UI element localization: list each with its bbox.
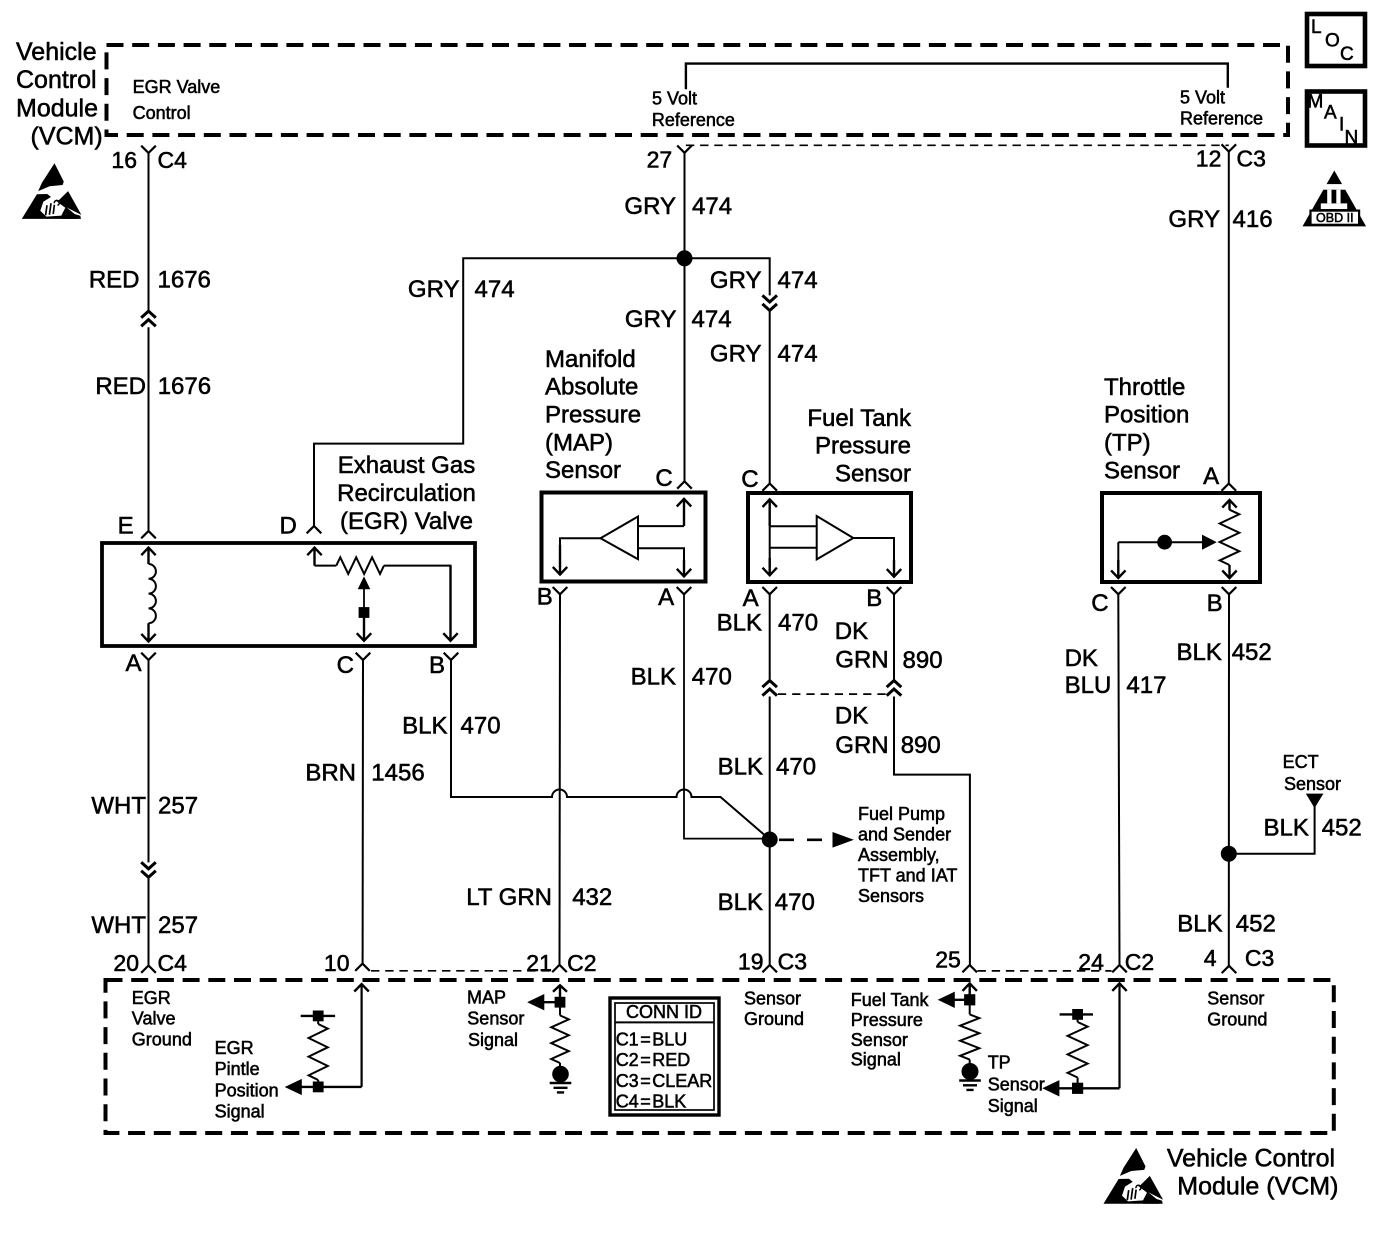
svg-text:890: 890 (903, 647, 943, 674)
svg-text:16: 16 (111, 147, 137, 173)
pin 19 C3 (738, 949, 807, 975)
EGR valve title (337, 452, 476, 535)
note EGR Valve Ground (132, 988, 192, 1049)
svg-text:Assembly,: Assembly, (858, 845, 940, 865)
wire ECT sensor stub (1229, 806, 1315, 854)
pin 4 C3 (1204, 945, 1275, 973)
svg-text:4: 4 (1204, 945, 1217, 971)
svg-text:474: 474 (475, 276, 515, 303)
svg-text:C1 = BLU: C1 = BLU (616, 1030, 688, 1050)
wire BRN 1456 (362, 660, 364, 964)
svg-text:DK: DK (835, 618, 868, 645)
svg-text:452: 452 (1232, 639, 1272, 666)
crossover dashed link (778, 693, 886, 695)
label GRY 474 on D riser (408, 276, 515, 303)
svg-text:Manifold: Manifold (545, 346, 636, 373)
wire WHT 257 upper (148, 660, 150, 862)
svg-text:TFT and IAT: TFT and IAT (858, 866, 957, 886)
svg-text:Module (VCM): Module (VCM) (1177, 1173, 1338, 1201)
note Fuel Tank Pressure Sensor Signal (851, 990, 930, 1070)
svg-text:OBD II: OBD II (1316, 211, 1354, 225)
label WHT 257 second (91, 912, 198, 939)
EGR pintle position signal resistor (287, 984, 369, 1094)
svg-text:257: 257 (158, 912, 198, 939)
wire thin dashed 25 to 24 (978, 970, 1112, 972)
svg-text:B: B (866, 585, 882, 612)
CONN ID table (610, 998, 719, 1115)
pin C MAP (655, 465, 691, 492)
svg-text:Vehicle: Vehicle (16, 38, 97, 66)
junction node GRY (678, 251, 692, 265)
svg-text:Sensor: Sensor (988, 1075, 1045, 1095)
pin C fuel sensor (741, 466, 777, 493)
svg-text:Pintle: Pintle (215, 1059, 260, 1079)
note Sensor Ground pin 4 (1207, 989, 1267, 1030)
wire GRY 474 from pin D to junction (314, 258, 678, 526)
fuel tank pressure sensor title (807, 405, 912, 488)
svg-text:GRN: GRN (835, 647, 888, 674)
TP wiper arm (1111, 536, 1214, 578)
svg-text:452: 452 (1236, 911, 1276, 938)
svg-text:Sensor: Sensor (467, 1009, 524, 1029)
pin 21 C2 (526, 950, 596, 976)
label GRY 474 mid (625, 306, 732, 333)
svg-text:Sensors: Sensors (858, 886, 924, 906)
svg-text:GRY: GRY (625, 306, 677, 333)
TP potentiometer (1220, 500, 1240, 578)
label GRY 474 top (624, 193, 732, 220)
pin E (118, 513, 156, 540)
svg-text:C: C (655, 465, 672, 492)
svg-text:Exhaust Gas: Exhaust Gas (338, 452, 475, 479)
fuel tank pressure sensor box (748, 493, 911, 582)
break chevrons GRY branch (762, 295, 777, 310)
svg-text:B: B (537, 584, 553, 611)
svg-text:E: E (118, 513, 134, 540)
label BLK 470 MAP A (631, 664, 732, 691)
svg-text:470: 470 (776, 754, 816, 781)
note ECT Sensor (1283, 752, 1341, 794)
svg-text:416: 416 (1233, 206, 1273, 233)
svg-text:Valve: Valve (132, 1009, 176, 1029)
svg-text:and Sender: and Sender (858, 825, 951, 845)
svg-text:GRN: GRN (835, 732, 888, 759)
MAP sensor internal amplifier (553, 499, 691, 577)
label BLK 452 upper (1177, 639, 1272, 666)
svg-text:452: 452 (1322, 814, 1362, 841)
svg-text:Ground: Ground (132, 1029, 192, 1049)
EGR pintle wiper (357, 579, 371, 641)
wire DK GRN 890 upper (893, 594, 895, 679)
svg-text:19: 19 (738, 949, 764, 975)
svg-text:257: 257 (158, 793, 198, 820)
label BLK 470 fuel A (717, 610, 818, 637)
OBD II symbol (1303, 171, 1367, 227)
svg-text:WHT: WHT (91, 793, 146, 820)
svg-text:Position: Position (215, 1080, 279, 1100)
svg-text:C3: C3 (1245, 945, 1274, 971)
svg-text:BLK: BLK (717, 610, 762, 637)
wire thin dashed 10 to 21 (371, 970, 552, 972)
wire GRY 474 branch lower (769, 311, 771, 483)
svg-text:BLK: BLK (718, 889, 763, 916)
svg-text:L: L (1311, 17, 1322, 38)
fuel sensor internal amplifier (763, 499, 902, 576)
label BLK 470 on B drop (402, 712, 500, 739)
label BRN 1456 (305, 760, 424, 787)
svg-text:Sensor: Sensor (1284, 774, 1341, 794)
ECT sensor connection triangle (1308, 795, 1322, 807)
pin A fuel sensor (743, 585, 777, 612)
svg-text:Module: Module (16, 94, 98, 122)
svg-text:(TP): (TP) (1104, 430, 1151, 457)
label DK GRN 890 (835, 618, 943, 674)
MAP sensor component box (542, 493, 706, 582)
bottom VCM dashed box (106, 980, 1334, 1133)
svg-text:27: 27 (647, 147, 673, 173)
TP sensor title (1104, 374, 1189, 484)
pin A MAP (658, 584, 691, 611)
svg-text:BRN: BRN (305, 760, 356, 787)
pin 25 (935, 947, 977, 973)
wire BLK 452 from TP B (1228, 594, 1230, 966)
module VCM top label (16, 38, 103, 150)
svg-text:Fuel Pump: Fuel Pump (858, 804, 945, 824)
note EGR Pintle Position Signal (215, 1038, 279, 1122)
junction node sensor ground (763, 833, 777, 847)
svg-text:474: 474 (692, 193, 732, 220)
svg-text:GRY: GRY (1168, 206, 1220, 233)
svg-text:WHT: WHT (91, 912, 146, 939)
ESD sensitive symbol bottom right (1104, 1148, 1164, 1204)
svg-text:470: 470 (778, 610, 818, 637)
svg-text:5 Volt: 5 Volt (1180, 87, 1225, 107)
VCM top dashed box (107, 45, 1289, 135)
wire BLK 470 fuel A upper (769, 594, 771, 679)
label RED 1676 (89, 267, 211, 294)
EGR valve component box (102, 543, 475, 646)
svg-text:CONN ID: CONN ID (626, 1002, 702, 1022)
TP sensor signal symbol (1045, 983, 1127, 1095)
svg-text:D: D (279, 513, 296, 540)
svg-text:Sensor: Sensor (545, 457, 621, 484)
label GRY 474 branch lower (710, 341, 818, 368)
label GRY 416 (1168, 206, 1272, 233)
svg-text:C: C (337, 652, 354, 679)
svg-text:DK: DK (1065, 645, 1098, 672)
label DK GRN 890 second (835, 703, 941, 760)
svg-text:474: 474 (778, 341, 818, 368)
label DK BLU 417 (1065, 645, 1167, 699)
junction node ECT (1222, 847, 1236, 861)
pin A EGR (125, 650, 155, 677)
svg-text:1676: 1676 (158, 373, 211, 400)
pin B MAP (537, 584, 568, 611)
svg-text:Control: Control (16, 66, 97, 94)
label WHT 257 (91, 793, 198, 820)
TP sensor component box (1102, 493, 1260, 582)
svg-text:20: 20 (113, 950, 139, 976)
svg-text:DK: DK (835, 703, 868, 730)
label BLK 452 ECT (1264, 814, 1362, 841)
svg-text:A: A (743, 585, 759, 612)
svg-text:BLU: BLU (1065, 672, 1112, 699)
svg-text:LT GRN: LT GRN (466, 884, 552, 911)
pin B EGR (429, 652, 458, 679)
svg-text:RED: RED (89, 267, 140, 294)
MAP sensor title (545, 346, 641, 484)
svg-text:(VCM): (VCM) (31, 122, 103, 150)
svg-text:BLK: BLK (1177, 911, 1222, 938)
wire GRY 474 branch to fuel sensor (685, 258, 770, 295)
pin A TP (1203, 463, 1236, 491)
svg-text:Signal: Signal (988, 1096, 1038, 1116)
svg-text:24: 24 (1078, 949, 1104, 975)
svg-text:C2: C2 (1125, 949, 1154, 975)
svg-text:25: 25 (935, 947, 961, 973)
svg-text:BLK: BLK (402, 712, 447, 739)
svg-text:B: B (429, 652, 445, 679)
svg-text:A: A (1324, 103, 1337, 124)
LOC reference box (1307, 14, 1365, 66)
label BLK 452 lower (1177, 911, 1276, 938)
wire BLK 470 from pin B with hops (451, 660, 770, 840)
note MAP Sensor Signal (467, 987, 524, 1050)
svg-text:432: 432 (572, 884, 612, 911)
svg-text:C2: C2 (567, 950, 596, 976)
MAP sensor signal symbol (530, 985, 572, 1092)
wire DK GRN 890 lower (894, 697, 970, 966)
svg-text:GRY: GRY (624, 193, 676, 220)
svg-text:EGR Valve: EGR Valve (133, 77, 221, 97)
svg-text:MAP: MAP (467, 987, 506, 1007)
svg-text:N: N (1345, 128, 1359, 149)
svg-text:1456: 1456 (371, 760, 424, 787)
svg-text:Absolute: Absolute (545, 374, 638, 401)
svg-text:O: O (1325, 31, 1340, 52)
svg-text:BLK: BLK (1177, 639, 1222, 666)
pin 27 (647, 146, 692, 173)
EGR pintle potentiometer (307, 548, 457, 641)
svg-text:Pressure: Pressure (545, 402, 641, 429)
svg-text:C: C (1340, 44, 1354, 65)
note Sensor Ground pin 19 (744, 989, 804, 1030)
svg-text:C3: C3 (1237, 146, 1266, 172)
pin 12 C3 (1196, 144, 1266, 171)
wire BLK 470 fuel A mid (769, 697, 771, 966)
svg-text:RED: RED (95, 373, 146, 400)
MAIN reference box (1307, 92, 1365, 149)
svg-text:BLK: BLK (631, 664, 676, 691)
svg-text:A: A (125, 650, 141, 677)
module VCM bottom label (1167, 1144, 1339, 1200)
note fuel pump and sender assembly (858, 804, 957, 906)
label BLK 470 fuel A lower (718, 889, 815, 916)
fuel tank pressure signal symbol (940, 983, 981, 1090)
label RED 1676 second (95, 373, 211, 400)
wire LT GRN 432 from MAP B (559, 594, 562, 965)
svg-text:(MAP): (MAP) (545, 429, 613, 456)
svg-text:C: C (1091, 590, 1108, 617)
svg-text:Pressure: Pressure (851, 1010, 923, 1030)
svg-text:C4 = BLK: C4 = BLK (616, 1091, 687, 1111)
svg-text:ECT: ECT (1283, 752, 1319, 772)
svg-text:Sensor: Sensor (835, 461, 911, 488)
svg-text:5 Volt: 5 Volt (652, 89, 697, 109)
pin C TP (1091, 587, 1125, 617)
pin C EGR (337, 652, 371, 679)
label BLK 470 fuel A mid (718, 754, 816, 781)
svg-text:Signal: Signal (468, 1030, 518, 1050)
svg-text:C4: C4 (158, 147, 188, 173)
svg-text:Sensor: Sensor (851, 1030, 908, 1050)
node 5 Volt Reference left (652, 89, 735, 130)
svg-text:10: 10 (324, 950, 350, 976)
svg-text:Fuel Tank: Fuel Tank (851, 990, 930, 1010)
svg-text:(EGR) Valve: (EGR) Valve (340, 508, 473, 535)
svg-text:Pressure: Pressure (815, 433, 911, 460)
pin B TP (1207, 587, 1237, 617)
svg-text:Reference: Reference (652, 110, 735, 130)
svg-text:BLK: BLK (718, 754, 763, 781)
wire RED 1676 lower (148, 327, 150, 530)
svg-text:Position: Position (1104, 402, 1189, 429)
svg-text:Sensor: Sensor (744, 989, 801, 1009)
reference dashed arrow fuel pump (779, 833, 851, 846)
svg-text:EGR: EGR (215, 1038, 254, 1058)
svg-text:A: A (658, 584, 674, 611)
label LT GRN 432 (466, 884, 612, 911)
svg-text:Throttle: Throttle (1104, 374, 1185, 401)
svg-text:B: B (1207, 590, 1223, 617)
svg-text:Sensor: Sensor (1207, 989, 1264, 1009)
wire DK BLU 417 from TP C (1118, 594, 1119, 965)
break chevrons DK GRN (887, 681, 902, 696)
EGR Valve Control label (133, 77, 221, 123)
svg-text:TP: TP (988, 1053, 1011, 1073)
svg-text:GRY: GRY (710, 267, 762, 294)
svg-text:A: A (1203, 463, 1219, 490)
svg-text:I: I (1339, 115, 1344, 136)
EGR solenoid coil (141, 548, 156, 642)
svg-text:470: 470 (775, 889, 815, 916)
svg-text:1676: 1676 (158, 267, 211, 294)
svg-text:C: C (741, 466, 758, 493)
pin B fuel sensor (866, 585, 901, 612)
svg-text:C4: C4 (158, 950, 188, 976)
note TP Sensor Signal (988, 1053, 1045, 1117)
svg-text:GRY: GRY (710, 341, 762, 368)
pin 10 (324, 950, 370, 976)
svg-text:C3 = CLEAR: C3 = CLEAR (616, 1071, 713, 1091)
svg-text:21: 21 (526, 950, 552, 976)
svg-text:C2 = RED: C2 = RED (616, 1050, 691, 1070)
svg-text:Recirculation: Recirculation (337, 480, 476, 507)
svg-text:Signal: Signal (215, 1102, 265, 1122)
svg-text:Signal: Signal (851, 1050, 901, 1070)
wire RED 1676 upper (148, 153, 150, 310)
svg-text:EGR: EGR (132, 988, 171, 1008)
break chevrons WHT wire (141, 862, 156, 877)
svg-text:890: 890 (901, 732, 941, 759)
pin D (279, 513, 321, 540)
pin 24 C2 (1078, 949, 1154, 975)
wire GRY 416 from pin 12 (1228, 152, 1230, 484)
svg-text:12: 12 (1196, 146, 1222, 172)
svg-text:Vehicle Control: Vehicle Control (1167, 1144, 1335, 1172)
svg-text:Ground: Ground (744, 1009, 804, 1029)
svg-text:470: 470 (461, 712, 501, 739)
svg-text:Ground: Ground (1207, 1010, 1267, 1030)
svg-text:474: 474 (692, 306, 732, 333)
wire 5V reference bracket (686, 64, 1228, 90)
svg-text:M: M (1308, 92, 1324, 113)
svg-text:BLK: BLK (1264, 814, 1309, 841)
svg-text:474: 474 (778, 267, 818, 294)
ESD sensitive symbol top left (22, 163, 82, 219)
break chevrons fuel A (762, 681, 777, 696)
svg-text:C3: C3 (778, 949, 807, 975)
svg-text:Reference: Reference (1180, 108, 1263, 128)
svg-text:Control: Control (133, 103, 191, 123)
break chevrons RED wire (141, 311, 156, 326)
svg-text:470: 470 (692, 664, 732, 691)
svg-text:417: 417 (1126, 672, 1166, 699)
wire BLK 470 from MAP A to junction (684, 594, 762, 838)
svg-text:Fuel Tank: Fuel Tank (807, 405, 912, 432)
node 5 Volt Reference right (1180, 87, 1263, 128)
svg-text:Sensor: Sensor (1104, 457, 1180, 484)
svg-text:GRY: GRY (408, 276, 460, 303)
pin 16 C4 (111, 146, 187, 173)
wire WHT 257 lower (148, 878, 150, 965)
wire thin dashed connector line top (686, 144, 1229, 146)
pin 20 C4 (113, 950, 187, 976)
label GRY 474 branch upper (710, 267, 818, 294)
wire GRY 474 from pin 27 to MAP C (684, 153, 686, 482)
